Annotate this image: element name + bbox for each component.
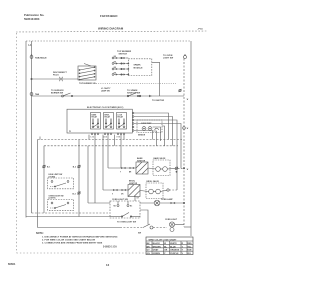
wire EOC bottom pin stub 2 xyxy=(114,135,116,146)
svg-text:W: W xyxy=(164,243,166,245)
footer page number xyxy=(106,263,110,267)
broil ignitor R2 xyxy=(128,181,140,197)
connector pin B-3 xyxy=(73,192,81,196)
svg-text:NO: NO xyxy=(114,206,117,208)
wire EOC pin to bus nested 2 xyxy=(134,117,173,146)
svg-text:TAB: TAB xyxy=(35,93,40,96)
EOC bottom pins xyxy=(91,133,125,139)
svg-text:RED: RED xyxy=(187,243,192,245)
svg-text:TOP BURNER SW: TOP BURNER SW xyxy=(79,83,96,85)
wire bank output dotted xyxy=(96,83,176,85)
switch door SW2 xyxy=(51,89,73,97)
bake safety valve L4 xyxy=(148,157,170,176)
svg-text:OR: OR xyxy=(164,250,168,252)
header model number text xyxy=(100,14,117,18)
wire EOC bottom to broil row xyxy=(102,135,104,190)
page frame left dashed xyxy=(16,33,18,253)
top burner rotary switch bank SW1 xyxy=(78,64,96,86)
svg-text:LAMP SW: LAMP SW xyxy=(101,89,110,92)
svg-text:4 5 6: 4 5 6 xyxy=(104,136,108,139)
relay K1 bake xyxy=(91,113,101,130)
bake ignitor R1 xyxy=(136,157,148,174)
oven temp sensor RT1 xyxy=(137,120,162,137)
svg-text:TO OVEN LIGHT SW: TO OVEN LIGHT SW xyxy=(117,221,136,223)
connector J4 xyxy=(113,189,118,191)
dashed bus DSI lower xyxy=(44,145,178,147)
svg-text:B-2: B-2 xyxy=(73,167,76,169)
wire box to snippet xyxy=(140,210,148,225)
header page mark xyxy=(197,28,203,31)
svg-text:- P14: - P14 xyxy=(197,28,203,31)
wire EOC bottom pin stub 1 xyxy=(88,135,90,140)
svg-text:3. CONNECTORS ARE VIEWED FROM: 3. CONNECTORS ARE VIEWED FROM WIRE ENTRY… xyxy=(42,242,103,245)
svg-text:SENSOR: SENSOR xyxy=(138,135,146,137)
drawing number xyxy=(103,245,117,248)
terminal TAB-M1 xyxy=(30,54,47,60)
svg-text:WHITE: WHITE xyxy=(170,243,177,245)
oven door switch S5 xyxy=(48,195,74,210)
svg-text:7 8 9: 7 8 9 xyxy=(117,137,121,139)
svg-text:W: W xyxy=(187,99,189,101)
switch spark ignition SW3 xyxy=(127,89,141,97)
svg-text:P2: P2 xyxy=(69,131,71,133)
svg-text:BLACK: BLACK xyxy=(153,242,161,245)
node L1 label xyxy=(29,44,33,47)
svg-text:ORANGE: ORANGE xyxy=(170,249,180,252)
wire lamp row left xyxy=(88,202,110,204)
wire L1 vertical bus xyxy=(31,41,33,213)
svg-text:GREEN: GREEN xyxy=(153,253,161,255)
wire EOC bottom to lamp row xyxy=(94,135,96,203)
svg-text:NOTE:: NOTE: xyxy=(36,232,44,235)
svg-text:TO SURFACE: TO SURFACE xyxy=(51,89,64,92)
svg-text:VIO: VIO xyxy=(187,253,191,255)
wire bottom snippet dashed xyxy=(120,227,143,229)
svg-text:BROWN: BROWN xyxy=(153,246,162,248)
svg-text:TO SPARK: TO SPARK xyxy=(127,89,138,92)
svg-text:GRAY: GRAY xyxy=(153,249,159,252)
electronic oven control EOC xyxy=(67,107,132,133)
svg-text:W: W xyxy=(187,169,189,171)
svg-text:SPARK: SPARK xyxy=(134,64,142,67)
wire to burner switch box xyxy=(32,78,79,80)
svg-text:BAKE: BAKE xyxy=(92,113,97,116)
svg-text:BROIL VALVE: BROIL VALVE xyxy=(147,180,160,183)
wire snippet right join xyxy=(184,226,191,228)
svg-text:YEL: YEL xyxy=(187,246,192,248)
diagram border top dashed xyxy=(26,40,191,42)
wire EOC pin to bus nested 4 xyxy=(153,127,161,141)
header separator dashed line xyxy=(16,31,207,32)
label to ignitor xyxy=(152,100,165,102)
diagram border right xyxy=(190,41,192,236)
connector pin BK-1 xyxy=(43,165,51,169)
high limit switch S4 xyxy=(48,174,74,189)
wire EOC pin to bake row right xyxy=(134,124,181,169)
wire EOC bottom pin stub 4 xyxy=(123,135,125,140)
spark module U1 xyxy=(128,59,152,76)
wire EOC pin to broil row right xyxy=(134,120,177,190)
svg-text:ELECTRONIC CLOCK/TIMER (EOC): ELECTRONIC CLOCK/TIMER (EOC) xyxy=(87,107,124,109)
svg-text:LOCK: LOCK xyxy=(118,114,124,116)
svg-text:1. DISCONNECT POWER AT SERVICE: 1. DISCONNECT POWER AT SERVICE ENTRANCE … xyxy=(42,235,118,238)
svg-text:W: W xyxy=(187,128,189,130)
svg-text:60601: 60601 xyxy=(8,262,16,266)
connector lamp right xyxy=(171,202,185,204)
wire bottom snippet feed xyxy=(38,227,121,229)
svg-text:PURPLE: PURPLE xyxy=(170,253,179,255)
wire snippet to border xyxy=(175,224,184,226)
wire N row xyxy=(32,95,185,97)
wire broil row xyxy=(103,189,128,191)
top burner switch contact rows xyxy=(112,51,132,76)
terminal broil out xyxy=(167,189,169,191)
svg-text:OR: OR xyxy=(121,193,124,195)
wire bake row xyxy=(108,167,136,169)
svg-text:5-9503-1 GA: 5-9503-1 GA xyxy=(103,245,117,248)
terminal TAB top right xyxy=(163,54,187,60)
connector pin B-2 xyxy=(73,165,81,169)
wire spark module output xyxy=(152,62,160,96)
header publication text xyxy=(24,13,45,21)
svg-text:NC: NC xyxy=(130,206,133,208)
svg-text:BK: BK xyxy=(147,243,150,245)
wire EOC pin to bus nested 3 xyxy=(153,131,157,146)
wire dashed bottom feed xyxy=(32,212,109,214)
switch snippet S7 xyxy=(138,224,153,235)
oven light switch S6 xyxy=(110,199,140,223)
oven lamp DS1 xyxy=(154,198,173,206)
svg-text:B-1: B-1 xyxy=(47,167,50,169)
svg-text:BR: BR xyxy=(129,171,132,173)
svg-text:BROIL: BROIL xyxy=(105,114,110,116)
svg-text:V: V xyxy=(112,193,113,195)
oven light DS2 xyxy=(165,219,178,232)
svg-text:(LIGHT): (LIGHT) xyxy=(49,198,56,200)
wire bake row out dashed xyxy=(167,167,175,170)
relay K3 lock xyxy=(117,113,127,130)
header wiring diagram title xyxy=(98,26,124,30)
wire EOC bottom to bake row xyxy=(107,135,109,168)
wire broil row out dashed xyxy=(160,190,167,191)
svg-text:SW: SW xyxy=(138,233,141,235)
svg-text:WIRING DIAGRAM: WIRING DIAGRAM xyxy=(98,26,124,30)
disconnect plug P1 xyxy=(53,72,67,81)
svg-text:MODULE: MODULE xyxy=(134,67,144,69)
svg-text:BAKE VALVE: BAKE VALVE xyxy=(154,157,167,160)
connector on right bus xyxy=(183,99,189,171)
svg-text:GN: GN xyxy=(147,253,151,255)
connector J1 xyxy=(121,167,126,169)
terminal TAB-M2 xyxy=(30,93,40,97)
svg-text:TAN: TAN xyxy=(187,249,192,252)
wire EOC pin to bus nested 1 xyxy=(134,113,169,140)
svg-text:2. FOR WIRE COLOR CODES SEE CH: 2. FOR WIRE COLOR CODES SEE CHART BELOW xyxy=(42,238,96,241)
stub above box xyxy=(135,196,140,201)
svg-text:PLUG: PLUG xyxy=(53,75,59,77)
dashed bus DSI upper xyxy=(38,139,183,141)
footer part code xyxy=(8,262,16,266)
wire right dashed bus xyxy=(183,59,185,228)
svg-text:OVEN LIGHT: OVEN LIGHT xyxy=(165,219,178,221)
svg-text:P: P xyxy=(164,253,166,255)
wire center bus D xyxy=(87,146,89,203)
svg-text:LIGHT SW: LIGHT SW xyxy=(163,57,173,59)
wire EOC pin nested 5 xyxy=(134,131,153,140)
wire left bus B xyxy=(37,140,39,228)
arrow on N row xyxy=(149,95,152,97)
svg-text:SWITCH: SWITCH xyxy=(119,54,128,56)
EOC right pins xyxy=(132,112,134,131)
wire EOC bottom pin stub 3 xyxy=(120,135,122,168)
wire left bus C xyxy=(43,146,45,213)
relay K2 broil xyxy=(104,113,114,130)
connector arrow right of bank output xyxy=(179,89,182,92)
wire sensor to bus nested 6 xyxy=(162,126,165,146)
terminal bake out xyxy=(175,167,178,173)
wire snippet dashed 2 xyxy=(153,227,167,229)
svg-text:5995434063: 5995434063 xyxy=(24,17,40,21)
node on EOC top xyxy=(137,95,138,96)
svg-text:BURNER SW: BURNER SW xyxy=(51,92,63,94)
connector J5 xyxy=(112,189,126,196)
svg-text:B-3: B-3 xyxy=(73,193,76,195)
note text block xyxy=(36,232,118,245)
svg-text:12: 12 xyxy=(106,263,110,267)
svg-text:OVEN LAMP: OVEN LAMP xyxy=(161,198,173,201)
page frame bottom dashed xyxy=(17,252,146,254)
svg-text:Y: Y xyxy=(120,171,121,173)
connector J2 xyxy=(120,167,134,174)
diagram border bottom wire xyxy=(26,216,110,218)
svg-text:1 2 3: 1 2 3 xyxy=(91,137,95,139)
broil safety valve L5 xyxy=(140,180,163,199)
svg-text:V: V xyxy=(182,253,184,255)
svg-text:Publication No.: Publication No. xyxy=(24,13,45,17)
svg-text:TAB-MALE: TAB-MALE xyxy=(35,57,47,60)
svg-text:BR: BR xyxy=(147,246,150,248)
svg-text:GY: GY xyxy=(137,198,140,200)
wire lamp row right xyxy=(140,202,184,204)
svg-text:TO IGNITOR: TO IGNITOR xyxy=(152,100,165,102)
label left of N row xyxy=(101,87,111,92)
wire bus x79 xyxy=(78,140,80,217)
svg-text:FGF354BGD: FGF354BGD xyxy=(100,14,117,18)
wire color legend table xyxy=(146,237,193,255)
junction node on L1 xyxy=(31,78,32,79)
diagram border left xyxy=(25,41,27,218)
svg-text:BLUE: BLUE xyxy=(170,246,176,248)
